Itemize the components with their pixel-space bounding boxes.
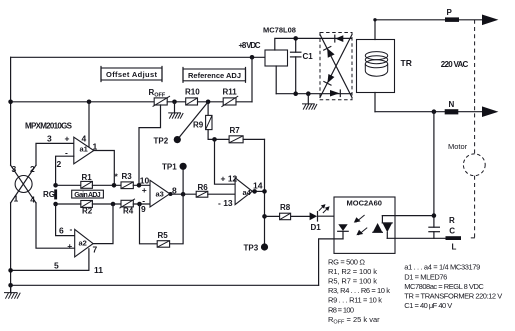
sensor MPXM2010GS [11, 122, 73, 205]
test point TP2 [174, 136, 181, 143]
box Reference ADJ [183, 68, 246, 83]
wire reg ground stem [275, 66, 277, 94]
junction R10 R11 R9 [206, 100, 211, 105]
svg-text:C1: C1 [303, 52, 314, 61]
wire top +8VDC rail [11, 56, 265, 58]
svg-text:D1 = MLED76: D1 = MLED76 [404, 272, 447, 281]
resistor R1 [81, 181, 93, 188]
svg-text:1: 1 [93, 141, 98, 151]
junction a4 apex [252, 189, 257, 194]
svg-text:+: + [142, 185, 147, 195]
resistor R7 [229, 136, 243, 143]
svg-text:14: 14 [253, 180, 263, 190]
junction a1 supply [87, 100, 92, 105]
op-amp a1 [65, 133, 98, 164]
wire R2 to R4 [92, 203, 121, 205]
svg-text:D1: D1 [311, 223, 322, 232]
wire RG row2 [56, 203, 81, 205]
svg-text:R2: R2 [82, 207, 93, 216]
wire snubber vertical [433, 112, 435, 239]
wire ROFF wiper to a3 plus node [139, 105, 161, 185]
dashed motor line [471, 20, 478, 238]
resistor R10 [186, 98, 198, 105]
svg-text:R6: R6 [198, 183, 209, 192]
svg-text:Offset Adjust: Offset Adjust [106, 70, 158, 79]
svg-text:7: 7 [93, 244, 98, 254]
svg-text:a1 . . . a4 = 1/4 MC33179: a1 . . . a4 = 1/4 MC33179 [404, 263, 480, 272]
MOC light arrows [354, 215, 367, 235]
junction a1 out R1 R3 [112, 183, 117, 188]
svg-text:a1: a1 [80, 145, 88, 154]
box Gain ADJ [72, 190, 104, 199]
resistor R5 [157, 241, 169, 248]
rectifier diode lower left [324, 74, 335, 85]
wire MOC triac out [382, 215, 434, 217]
wire a4 output [252, 190, 264, 192]
junction reg ground [306, 91, 311, 96]
wire a4 plus stem [215, 139, 236, 184]
junction a3 apex [169, 192, 173, 196]
wire dc ground rail [276, 93, 351, 95]
svg-text:a3: a3 [156, 190, 164, 199]
svg-text:2: 2 [30, 164, 35, 174]
notes right block [404, 263, 502, 310]
svg-text:9: 9 [141, 204, 146, 214]
fuse bar P [445, 17, 459, 22]
svg-text:L: L [452, 243, 457, 252]
svg-text:+ 12: + 12 [221, 174, 238, 184]
wire R3 to a3 [133, 184, 150, 186]
resistor R3 [121, 182, 133, 189]
capacitor snubber C [429, 227, 440, 232]
resistor R9 [206, 115, 212, 129]
ground regulator [302, 94, 317, 110]
capacitor C1 [291, 38, 314, 93]
svg-text:2: 2 [57, 159, 62, 169]
resistor RG [53, 183, 58, 206]
MOC triac [373, 216, 392, 239]
junction P corner [373, 18, 376, 21]
svg-text:R9: R9 [193, 121, 204, 130]
wire R4 to a3 [133, 203, 150, 205]
wire ROFF to R10 [167, 101, 186, 103]
node +8 VDC [250, 55, 255, 60]
svg-text:C: C [449, 226, 455, 235]
rectifier diode upper left [324, 47, 335, 58]
svg-text:11: 11 [94, 265, 103, 275]
wire a1 minus input [56, 156, 74, 185]
svg-text:R: R [449, 216, 455, 225]
svg-text:TR: TR [401, 58, 412, 68]
svg-text:10: 10 [140, 176, 150, 186]
junction ROFF right [172, 100, 177, 105]
svg-text:1: 1 [14, 194, 19, 204]
resistor R2 [81, 201, 93, 208]
svg-text:N: N [449, 100, 455, 109]
rectifier bridge dashed box [320, 33, 352, 100]
wire left rail upper [10, 57, 12, 165]
svg-text:R1: R1 [82, 173, 93, 182]
wire triac to L [387, 237, 446, 239]
svg-text:TR = TRANSFORMER 220:12 V: TR = TRANSFORMER 220:12 V [404, 292, 502, 301]
wire offset rail [11, 101, 155, 103]
svg-text:R11: R11 [223, 88, 238, 97]
svg-text:a2: a2 [79, 238, 87, 247]
box Offset Adjust [101, 67, 162, 82]
svg-text:+: + [67, 241, 72, 251]
junction MOC out snubber [432, 213, 437, 218]
junction left rail offset [8, 100, 13, 105]
svg-text:P: P [447, 8, 453, 17]
wire R1 to R3 [92, 184, 121, 186]
svg-text:R8 = 100: R8 = 100 [328, 305, 354, 314]
svg-text:R10: R10 [185, 88, 200, 97]
arrow P [482, 15, 498, 26]
wire R7 to a4 output [243, 138, 264, 140]
svg-text:+8 VDC: +8 VDC [239, 41, 261, 50]
resistor R8 [280, 213, 291, 220]
svg-text:TP1: TP1 [162, 162, 177, 171]
svg-text:3: 3 [47, 134, 52, 144]
junction C1 top [293, 36, 298, 41]
ground below ROFF [168, 102, 183, 119]
resistor R6 [196, 191, 208, 197]
wire RG row1 [56, 184, 81, 186]
rectifier X diagonals [320, 35, 352, 98]
wire a3 output [170, 193, 196, 195]
svg-text:R7: R7 [230, 126, 241, 135]
svg-text:-: - [142, 196, 145, 206]
svg-text:MC78L08: MC78L08 [263, 26, 296, 35]
wire sensor pin2 to a1 [36, 143, 74, 165]
rectifier diode top [335, 35, 344, 42]
wire R8 row [265, 215, 310, 217]
svg-text:MPXM2010GS: MPXM2010GS [25, 122, 73, 131]
svg-text:MOC2A60: MOC2A60 [347, 199, 382, 208]
svg-text:3: 3 [12, 164, 17, 174]
wire +8VDC stem down to R11 [251, 57, 253, 102]
wire P line [375, 19, 482, 21]
diode D1 LED [310, 204, 330, 232]
wire gnd row 5 [11, 269, 89, 271]
svg-text:R3, R4 . . . R6 = 10 k: R3, R4 . . . R6 = 10 k [328, 286, 390, 295]
svg-text:4: 4 [30, 195, 35, 205]
resistor R4 [120, 199, 136, 208]
wire transformer primary bottom [374, 93, 376, 112]
MOC internal LED [338, 224, 349, 239]
svg-text:5: 5 [54, 261, 59, 271]
junction R8 node [262, 214, 267, 219]
wire R10 to R11 [198, 101, 224, 103]
svg-text:Reference ADJ: Reference ADJ [188, 71, 241, 80]
svg-text:C1 = 40 μF 40 V: C1 = 40 μF 40 V [404, 301, 452, 310]
motor circle [463, 154, 485, 176]
svg-text:R1, R2 = 100 k: R1, R2 = 100 k [328, 267, 377, 276]
notes left block [328, 257, 390, 325]
svg-text:Gain ADJ: Gain ADJ [74, 192, 101, 199]
wire a1 pin4 stem [88, 102, 90, 148]
op-amp a3 [140, 176, 177, 215]
arrow N [482, 106, 498, 117]
svg-text:6: 6 [59, 226, 64, 236]
wire gnd rail long [11, 284, 319, 286]
svg-text:R5: R5 [158, 231, 169, 240]
svg-text:TP2: TP2 [154, 137, 169, 146]
rectifier diode bottom [330, 90, 340, 97]
wire a2 minus input [56, 204, 75, 236]
wire R6 to a4 minus [208, 193, 235, 195]
wire R9 top stem [207, 102, 209, 116]
optocoupler MOC2A60 box [334, 197, 395, 253]
junction R3 a3 wiper [137, 183, 142, 188]
wire TP2 diagonal [177, 102, 208, 140]
junction a4 out vertical [262, 189, 267, 194]
terminal bar L [446, 236, 462, 240]
wire output vertical [264, 139, 266, 247]
junction rail 270 [8, 268, 13, 273]
junction a4 plus node [212, 137, 217, 142]
svg-text:MC7808ac = REGL 8 VDC: MC7808ac = REGL 8 VDC [404, 282, 484, 291]
junction R4 a3 R5 [137, 202, 142, 207]
junction C1 bottom [293, 91, 298, 96]
wire a2 output [93, 204, 113, 244]
junction TP1 R5 node [181, 192, 186, 197]
transformer TR [357, 40, 412, 93]
wire R9 bottom to a4 node [208, 130, 229, 140]
test point TP3 [244, 243, 269, 252]
wire MOC LED cathode return [319, 239, 343, 285]
wire transformer primary top [374, 20, 376, 40]
resistor ROFF [153, 96, 170, 107]
svg-text:R9 . . . R11 = 10 k: R9 . . . R11 = 10 k [328, 296, 382, 305]
wire D1 to MOC LED [318, 216, 344, 224]
svg-text:R5, R7 = 100 k: R5, R7 = 100 k [328, 277, 377, 286]
regulator MC78L08 [265, 50, 288, 66]
svg-text:Motor: Motor [448, 142, 468, 151]
svg-text:R3: R3 [122, 172, 133, 181]
wire R5 loop [140, 194, 184, 244]
svg-text:-: - [70, 224, 73, 234]
junction rail 285 [8, 283, 13, 288]
junction a2 out R2 R4 [111, 202, 116, 207]
ground bottom left [4, 285, 20, 298]
resistor R11 variable [221, 96, 238, 107]
wire a1 output [94, 151, 115, 186]
wire left rail lower [10, 203, 12, 293]
wire a2 pin11 stem [88, 249, 90, 271]
svg-text:220 VAC: 220 VAC [441, 60, 469, 69]
wire R11 to +8 node [236, 101, 252, 103]
svg-text:TP3: TP3 [244, 244, 259, 253]
svg-text:R8: R8 [280, 203, 291, 212]
op-amp a2 [59, 224, 98, 257]
svg-text:a4: a4 [243, 188, 252, 197]
wire sensor pin4 to a2 [36, 203, 75, 248]
wire N line [375, 111, 482, 113]
junction N snubber [432, 109, 437, 114]
svg-text:+: + [65, 134, 70, 144]
svg-text:R4: R4 [123, 207, 134, 216]
svg-text:- 13: - 13 [218, 198, 233, 208]
op-amp a4 [218, 174, 263, 209]
svg-text:RG: RG [43, 190, 55, 199]
fuse bar N [445, 109, 459, 114]
svg-text:4: 4 [82, 133, 87, 143]
svg-text:RG = 500 Ω: RG = 500 Ω [328, 257, 365, 266]
wire reg input top [275, 38, 352, 50]
test point TP1 [162, 162, 187, 194]
